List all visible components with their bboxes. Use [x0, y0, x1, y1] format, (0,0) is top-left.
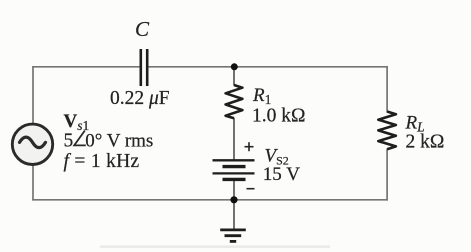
battery minus sign [247, 188, 255, 190]
wire bottom [32, 199, 388, 201]
wire right vertical upper [386, 66, 388, 113]
node A junction dot [231, 63, 238, 70]
svg-text:f = 1 kHz: f = 1 kHz [64, 151, 140, 172]
svg-text:0.22 μF: 0.22 μF [110, 88, 170, 109]
capacitor C plates [141, 49, 147, 86]
ground [220, 230, 246, 242]
ac source VS1 [12, 124, 52, 164]
wire node B to ground [233, 200, 235, 230]
battery plus sign [245, 142, 254, 151]
svg-text:5: 5 [64, 131, 74, 152]
svg-text:0° V rms: 0° V rms [85, 131, 153, 152]
wire left vertical lower [32, 165, 34, 201]
wire R1 to battery [233, 118, 235, 160]
resistor RL [378, 112, 396, 150]
wire top right [148, 66, 388, 68]
wire node A to R1 [233, 67, 235, 86]
node B junction dot [230, 196, 237, 203]
scan smudge bottom [100, 246, 330, 248]
svg-text:C: C [135, 17, 150, 41]
wire top left [32, 66, 139, 68]
wire left vertical upper [32, 66, 34, 125]
wire right vertical lower [386, 149, 388, 201]
value 5∠0° V rms (angle drawn as lines) [64, 131, 154, 152]
wire battery to node B [233, 179, 235, 200]
svg-text:2 kΩ: 2 kΩ [406, 132, 445, 153]
resistor R1 [226, 85, 243, 118]
angle symbol [74, 131, 86, 146]
battery VS2 [213, 160, 255, 179]
svg-text:1.0 kΩ: 1.0 kΩ [252, 105, 306, 126]
svg-text:15 V: 15 V [263, 164, 300, 185]
